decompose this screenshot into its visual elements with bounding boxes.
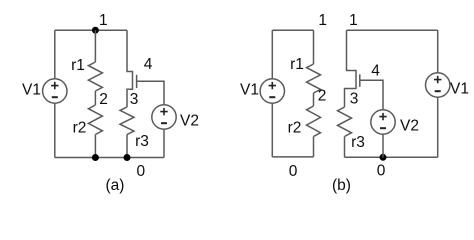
svg-text:V2: V2 (400, 118, 419, 135)
svg-text:r1: r1 (71, 57, 85, 74)
MOSFET M1 gate bar (b) (359, 74, 361, 87)
wire: r3 to node 0 (a) (126, 135, 128, 158)
resistor r3 (b) (338, 107, 352, 137)
wire: V1 bottom lead (b-right) (437, 97, 439, 157)
svg-text:V1: V1 (22, 82, 41, 99)
svg-text:1: 1 (349, 12, 358, 29)
junction dot node 1 (a) (92, 27, 99, 34)
wire: V1 top lead (b-right) (437, 30, 439, 73)
wire: gate to V2 node 4 (b) (360, 80, 383, 110)
wire: r3 to node 0 (b) (344, 137, 346, 158)
wire: V1 top lead (a) (54, 30, 56, 79)
wire: node 1 to r1 (a) (94, 30, 96, 62)
svg-text:4: 4 (144, 56, 153, 73)
voltage source V2 (a) (152, 105, 176, 129)
voltage source V1 (b-right) (426, 73, 450, 97)
svg-text:r2: r2 (73, 120, 87, 137)
resistor r2 (a) (88, 105, 102, 135)
svg-text:1: 1 (318, 12, 327, 29)
svg-text:1: 1 (99, 12, 108, 29)
junction dot r2/node 0 (a) (92, 154, 99, 161)
wire: r2 to node 0 (a) (94, 135, 96, 158)
resistor r1 (a) (88, 62, 102, 91)
resistor r2 (b) (307, 106, 321, 137)
wire: V1 top lead (b-left) (271, 30, 273, 79)
voltage source V1 (b) (260, 79, 284, 103)
svg-text:V1: V1 (450, 81, 469, 98)
MOSFET M1 drain lead from node 1 (a) (127, 30, 133, 71)
wire: gate to V2 node 4 (a) (137, 81, 164, 105)
wire: r1 to r2 node 2 (a) (94, 91, 96, 105)
MOSFET M1 channel bar (b) (355, 70, 357, 89)
wire: r1 to r2 node 2 (b) (313, 93, 315, 106)
svg-text:0: 0 (377, 163, 386, 180)
svg-text:4: 4 (371, 63, 380, 80)
wire: bottom rail node 0 (b-left) (272, 156, 313, 158)
MOSFET M1 source lead to node 3 (b) (345, 89, 357, 108)
svg-text:r1: r1 (290, 56, 304, 73)
svg-text:3: 3 (350, 91, 359, 108)
voltage source V1 (a) (43, 79, 67, 103)
resistor r1 (b) (307, 64, 321, 93)
svg-text:r2: r2 (288, 120, 302, 137)
svg-text:V2: V2 (180, 113, 199, 130)
junction dot r3/node 0 (a) (124, 154, 131, 161)
wire: top rail node 1 (b-left) (272, 29, 313, 31)
wire: top rail node 1 (b-right) (347, 29, 438, 31)
wire: V1 bottom lead (a) (54, 103, 56, 157)
svg-text:(a): (a) (106, 177, 125, 194)
svg-text:V1: V1 (240, 82, 259, 99)
svg-text:0: 0 (136, 163, 145, 180)
resistor r3 (a) (120, 107, 134, 135)
svg-text:2: 2 (318, 88, 327, 105)
wire: V2 bottom lead (a) (163, 129, 165, 157)
MOSFET M1 source lead to node 3 (a) (127, 89, 133, 107)
wire: node 1 to r1 (b) (313, 30, 315, 64)
svg-text:r3: r3 (135, 133, 149, 150)
voltage source V2 (b) (371, 110, 395, 134)
svg-text:(b): (b) (332, 177, 351, 194)
MOSFET M1 drain lead from node 1 (b) (347, 30, 357, 70)
svg-text:2: 2 (99, 91, 108, 108)
svg-text:0: 0 (289, 163, 298, 180)
wire: bottom rail node 0 (b-right) (345, 156, 438, 158)
MOSFET M1 gate bar (a) (136, 75, 138, 88)
svg-text:3: 3 (130, 91, 139, 108)
MOSFET M1 channel bar (a) (132, 71, 134, 90)
junction dot V2/node 0 (b) (380, 154, 387, 161)
wire: r2 to node 0 (b) (313, 137, 315, 157)
wire: bottom rail node 0 (a) (55, 157, 164, 159)
wire: V1 bottom lead (b-left) (271, 103, 273, 157)
wire: top rail node 1 (a) (55, 29, 127, 31)
wire: V2 bottom lead (b) (382, 134, 384, 157)
svg-text:r3: r3 (351, 134, 365, 151)
